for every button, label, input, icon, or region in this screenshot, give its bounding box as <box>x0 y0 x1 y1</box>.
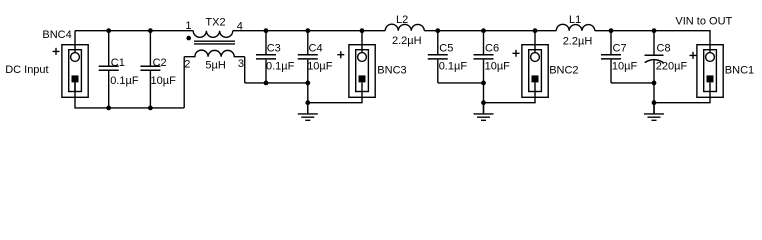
svg-text:10µF: 10µF <box>151 75 177 87</box>
wire section4 ground rail to BNC1 <box>654 97 710 102</box>
transformer TX2 core <box>194 41 235 44</box>
connector BNC1 body <box>697 45 723 98</box>
capacitor C1 plates <box>99 66 119 70</box>
junction node C1 bottom <box>106 106 111 111</box>
junction node C4 top <box>305 28 310 33</box>
transformer TX2 bottom winding (pin 2 to pin 3) <box>184 50 245 57</box>
svg-text:DC Input: DC Input <box>5 64 48 76</box>
plus mark BNC2 <box>513 50 520 57</box>
svg-text:VIN to OUT: VIN to OUT <box>675 16 732 28</box>
svg-text:5µH: 5µH <box>205 60 225 72</box>
ground symbol section4 <box>644 103 664 121</box>
capacitor C6 wires <box>483 31 485 114</box>
wire BNC3 top drop <box>361 31 363 53</box>
svg-text:BNC1: BNC1 <box>725 65 754 77</box>
svg-text:0.1µF: 0.1µF <box>110 75 139 87</box>
capacitor C2 wires <box>149 31 151 108</box>
svg-text:C3: C3 <box>267 43 281 55</box>
wire top rail TX2 pin 4 to L2 <box>233 30 385 32</box>
wire BNC4 top drop <box>74 31 76 53</box>
wire top rail L2 to L1 <box>424 30 556 32</box>
svg-text:C1: C1 <box>111 57 125 69</box>
svg-text:C2: C2 <box>153 57 167 69</box>
junction node C6 top <box>481 28 486 33</box>
svg-text:1: 1 <box>185 20 191 32</box>
junction node section2 ground <box>305 100 310 105</box>
junction node BNC2 top <box>533 28 538 33</box>
wire section2 bottom rail TX2 pin3 to C4 <box>245 82 308 84</box>
transformer TX2 top winding (pin 1 to pin 4) <box>193 31 233 38</box>
capacitor C3 wires <box>265 31 267 83</box>
svg-text:3: 3 <box>238 58 244 70</box>
svg-text:220µF: 220µF <box>656 61 688 73</box>
wire input bottom rail BNC4 to TX2 pin 2 <box>75 82 184 108</box>
svg-text:C7: C7 <box>613 43 627 55</box>
svg-text:10µF: 10µF <box>485 61 511 73</box>
capacitor C5 wires <box>437 31 439 83</box>
svg-text:BNC4: BNC4 <box>42 29 71 41</box>
wire top rail from BNC4 to TX2 pin 1 <box>75 30 193 32</box>
junction node C5 top <box>435 28 440 33</box>
capacitor C8 wires <box>653 31 655 114</box>
TX2 polarity dot <box>186 36 191 41</box>
connector BNC3 body <box>349 45 375 98</box>
junction node section3 ground <box>481 100 486 105</box>
capacitor C1 wires <box>108 31 110 108</box>
svg-text:C6: C6 <box>485 43 499 55</box>
junction node C8 bottom <box>652 81 657 86</box>
junction node C1 top <box>106 28 111 33</box>
wire section3 ground rail to BNC2 <box>484 97 536 102</box>
plus mark BNC4 <box>53 48 60 55</box>
plus mark BNC3 <box>337 51 344 58</box>
junction node C3 bottom <box>264 81 269 86</box>
junction node C3 top <box>264 28 269 33</box>
ground symbol section2 <box>298 103 318 121</box>
wire TX2 pin 2 to input ground rail <box>183 57 185 108</box>
svg-text:TX2: TX2 <box>205 17 225 29</box>
capacitor C8 top plate <box>645 54 664 56</box>
wire section4 bottom rail C7 to C8 <box>611 82 654 84</box>
connector BNC2 body <box>522 45 548 98</box>
wire section2 ground rail to BNC3 <box>308 97 362 102</box>
svg-text:L1: L1 <box>569 14 581 26</box>
wire top rail L1 to BNC1 <box>595 31 710 53</box>
junction node C8 top <box>652 28 657 33</box>
svg-text:2.2µH: 2.2µH <box>392 35 422 47</box>
svg-text:C5: C5 <box>439 43 453 55</box>
junction node C4 bottom <box>305 81 310 86</box>
junction node C6 bottom <box>481 81 486 86</box>
svg-text:2.2µH: 2.2µH <box>563 35 593 47</box>
svg-text:C4: C4 <box>309 43 323 55</box>
ground symbol section3 <box>474 103 494 121</box>
svg-text:C8: C8 <box>657 43 671 55</box>
junction node C2 top <box>148 28 153 33</box>
inductor L1 <box>556 24 595 30</box>
capacitor C5 plates <box>428 55 448 59</box>
svg-text:2: 2 <box>184 59 190 71</box>
capacitor C3 plates <box>256 55 276 59</box>
wire section3 bottom rail C5 to C6 <box>438 82 484 84</box>
svg-text:L2: L2 <box>396 14 408 26</box>
junction node C2 bottom <box>148 106 153 111</box>
svg-text:4: 4 <box>237 20 243 32</box>
plus mark BNC1 <box>690 52 697 59</box>
wire TX2 pin 3 drop <box>244 57 246 83</box>
svg-text:0.1µF: 0.1µF <box>266 61 295 73</box>
svg-text:0.1µF: 0.1µF <box>439 61 468 73</box>
svg-text:BNC2: BNC2 <box>549 65 578 77</box>
capacitor C7 plates <box>601 55 621 59</box>
connector BNC4 body <box>62 45 88 98</box>
capacitor C6 plates <box>474 55 494 59</box>
svg-text:10µF: 10µF <box>307 61 333 73</box>
capacitor C4 wires <box>307 31 309 114</box>
capacitor C4 plates <box>298 55 318 59</box>
svg-text:BNC3: BNC3 <box>377 65 406 77</box>
wire BNC2 top drop <box>534 31 536 53</box>
capacitor C7 wires <box>610 31 612 83</box>
junction node C7 top <box>609 28 614 33</box>
capacitor C2 plates <box>140 66 160 70</box>
inductor L2 <box>385 24 424 31</box>
capacitor C8 curved bottom plate <box>645 60 664 63</box>
junction node section4 ground <box>652 100 657 105</box>
svg-text:10µF: 10µF <box>612 61 638 73</box>
junction node BNC3 top <box>360 28 365 33</box>
